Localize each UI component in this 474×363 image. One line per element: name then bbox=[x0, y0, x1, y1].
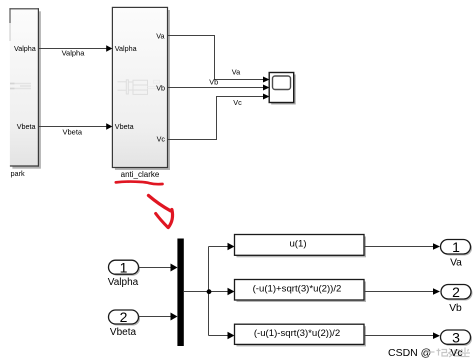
svg-text:2: 2 bbox=[120, 309, 128, 325]
svg-text:Valpha: Valpha bbox=[115, 44, 137, 53]
svg-text:Va: Va bbox=[450, 258, 462, 269]
svg-text:Va: Va bbox=[156, 32, 164, 41]
svg-text:Vc: Vc bbox=[157, 135, 166, 144]
svg-text:Valpha: Valpha bbox=[108, 277, 139, 288]
svg-text:Valpha: Valpha bbox=[62, 49, 86, 58]
svg-text:Vb: Vb bbox=[449, 303, 462, 314]
svg-text:Vbeta: Vbeta bbox=[62, 128, 82, 137]
svg-text:Vbeta: Vbeta bbox=[110, 327, 137, 338]
svg-text:Vbeta: Vbeta bbox=[115, 122, 134, 131]
svg-text:u(1): u(1) bbox=[289, 238, 306, 249]
svg-text:3: 3 bbox=[452, 329, 460, 345]
svg-text:1: 1 bbox=[452, 239, 460, 255]
svg-text:Vc: Vc bbox=[451, 348, 463, 359]
svg-text:park: park bbox=[11, 169, 26, 178]
svg-text:Valpha: Valpha bbox=[14, 44, 36, 53]
svg-text:1: 1 bbox=[120, 259, 128, 275]
svg-text:Va: Va bbox=[232, 68, 241, 77]
svg-text:CSDN @: CSDN @ bbox=[388, 347, 431, 359]
svg-text:2: 2 bbox=[452, 284, 460, 300]
svg-text:anti_clarke: anti_clarke bbox=[121, 170, 160, 179]
svg-text:Vbeta: Vbeta bbox=[17, 122, 36, 131]
svg-text:Vb: Vb bbox=[209, 78, 218, 87]
svg-text:(-u(1)+sqrt(3)*u(2))/2: (-u(1)+sqrt(3)*u(2))/2 bbox=[253, 283, 342, 294]
svg-text:(-u(1)-sqrt(3)*u(2))/2: (-u(1)-sqrt(3)*u(2))/2 bbox=[254, 328, 340, 339]
svg-text:Vb: Vb bbox=[156, 84, 165, 93]
svg-text:Vc: Vc bbox=[233, 98, 242, 107]
